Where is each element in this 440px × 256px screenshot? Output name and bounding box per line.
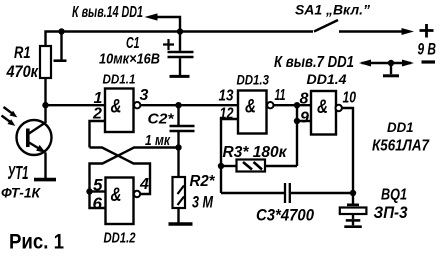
- wire: node to DD1.1 pin 1: [46, 104, 106, 106]
- wire: minus rail double arrow (к выв.7): [362, 62, 412, 64]
- capacitor C2* 1мк: [177, 105, 179, 125]
- svg-text:Рис. 1: Рис. 1: [9, 231, 64, 254]
- svg-text:10: 10: [343, 90, 357, 107]
- light arrow 1 into VT1: [4, 107, 15, 115]
- resistor R2* 3М: [177, 148, 179, 178]
- svg-text:DD1.1: DD1.1: [103, 72, 136, 87]
- svg-text:9 В: 9 В: [418, 41, 437, 59]
- svg-text:&: &: [245, 96, 256, 118]
- C1 plus-sign polarity mark: [163, 39, 174, 50]
- wire: DD1.1 pin3 output to DD1.3 pin 13: [141, 104, 239, 106]
- svg-text:С2*: С2*: [148, 111, 175, 128]
- node: BQ1 top junction: [350, 190, 356, 196]
- svg-text:DD1.3: DD1.3: [237, 73, 270, 88]
- node: collector node of VT1 / R1 bottom: [42, 102, 48, 108]
- svg-text:R1: R1: [14, 43, 31, 62]
- light arrow 2 into VT1: [2, 116, 13, 124]
- ground under C1: [170, 75, 190, 78]
- wire: cross-coupling C2 node to DD1.2 pins 5,6: [90, 148, 179, 209]
- svg-text:12: 12: [220, 106, 234, 123]
- DD1.1 output bubble pin 3: [134, 102, 140, 108]
- svg-text:9: 9: [300, 110, 309, 127]
- svg-text:ЗП-3: ЗП-3: [374, 203, 408, 222]
- svg-text:2: 2: [92, 106, 102, 123]
- node: minus rail junction: [388, 60, 394, 66]
- svg-text:К561ЛА7: К561ЛА7: [372, 138, 430, 155]
- phototransistor VT1 ФТ-1К: [44, 105, 46, 123]
- terminal stub with bar hanging from top rail: [60, 32, 62, 60]
- gate DD1.4 (2-input NAND): [311, 91, 336, 135]
- node: pin 8 junction: [294, 102, 300, 108]
- node: junction of pin-14 lead and C1 on rail: [177, 28, 183, 34]
- battery minus dash: [422, 60, 436, 63]
- battery plus sign: [420, 24, 434, 38]
- gate DD1.1 (2-input NAND): [105, 89, 134, 133]
- common terminal under minus rail: [390, 63, 392, 74]
- svg-text:6: 6: [93, 194, 103, 213]
- svg-text:&: &: [111, 184, 122, 206]
- wire: DD1.3 pin 12 down to R3/C3: [221, 119, 238, 193]
- ground under R2: [169, 222, 193, 225]
- svg-text:3 М: 3 М: [192, 194, 214, 212]
- svg-text:К выв.14 DD1: К выв.14 DD1: [72, 4, 143, 21]
- wire: vertical tie pin8-pin9-R3 right: [296, 105, 298, 166]
- svg-text:DD1: DD1: [387, 120, 414, 135]
- switch SA1 blade: [314, 20, 338, 32]
- svg-text:УТ1: УТ1: [8, 162, 29, 183]
- capacitor C3* 4700: [221, 192, 284, 194]
- wire: DD1.4 pin 10 down to BQ1: [342, 108, 353, 193]
- wire: cross-coupling DD1.1 pin2 to DD1.2 pin4: [90, 148, 151, 195]
- svg-text:&: &: [111, 96, 122, 118]
- wire: SA1 to battery + with arrow: [339, 30, 403, 32]
- svg-text:&: &: [317, 96, 328, 118]
- svg-text:1 мк: 1 мк: [145, 132, 171, 149]
- svg-text:BQ1: BQ1: [381, 187, 407, 204]
- svg-text:R3* 180к: R3* 180к: [223, 144, 288, 161]
- svg-text:3: 3: [140, 87, 149, 104]
- wire: DD1.1 pin 2 down to RS cross-coupling: [90, 121, 106, 148]
- svg-text:1: 1: [94, 90, 103, 107]
- gate DD1.2 (2-input NAND): [106, 178, 134, 225]
- node: junction dot on top rail near R1: [58, 28, 64, 34]
- piezo emitter BQ1 ЗП-3: [352, 193, 354, 204]
- wire: DD1.4 pin 9 stub: [297, 120, 311, 122]
- svg-text:13: 13: [219, 88, 234, 105]
- svg-text:С1: С1: [126, 35, 140, 52]
- DD1.3 output bubble pin 11: [267, 102, 273, 108]
- svg-text:SA1 „Вкл.”: SA1 „Вкл.”: [295, 2, 370, 18]
- wire: +9V top rail from R1 top to switch SA1: [46, 32, 314, 47]
- svg-text:С3*4700: С3*4700: [256, 206, 314, 225]
- wire: DD1.2 pin 5 stub: [90, 190, 106, 192]
- svg-text:10мк×16В: 10мк×16В: [99, 51, 160, 68]
- svg-text:5: 5: [93, 176, 103, 195]
- ground under VT1 emitter: [34, 178, 56, 182]
- node: R3 left junction: [218, 163, 224, 169]
- svg-text:470к: 470к: [6, 62, 40, 81]
- node: C2/R2/feedback junction: [175, 144, 181, 150]
- gate DD1.3 (2-input NAND): [238, 91, 267, 134]
- node: pins 5-6 tie junction: [86, 188, 92, 194]
- svg-text:8: 8: [300, 91, 309, 108]
- capacitor C1 10мк×16В electrolytic: [179, 32, 181, 51]
- svg-text:ФТ-1К: ФТ-1К: [1, 185, 41, 201]
- svg-text:R2*: R2*: [190, 173, 216, 190]
- resistor R1 470к: [40, 46, 51, 78]
- resistor R3* 180к: [221, 165, 237, 167]
- node: C2 branch junction: [175, 102, 181, 108]
- wire: DD1.3 pin 11 to DD1.4 pin 8: [274, 104, 311, 106]
- svg-text:DD1.4: DD1.4: [307, 71, 347, 87]
- DD1.2 output bubble pin 4: [134, 191, 140, 197]
- node: pin 9 junction: [294, 118, 300, 124]
- DD1.4 output bubble pin 10: [336, 105, 342, 111]
- wire: "К выв.14 DD1" arrow lead down to rail: [157, 17, 180, 32]
- svg-text:11: 11: [275, 87, 286, 104]
- svg-text:К выв.7 DD1: К выв.7 DD1: [274, 54, 354, 71]
- svg-text:DD1.2: DD1.2: [104, 231, 136, 247]
- svg-text:4: 4: [139, 176, 149, 193]
